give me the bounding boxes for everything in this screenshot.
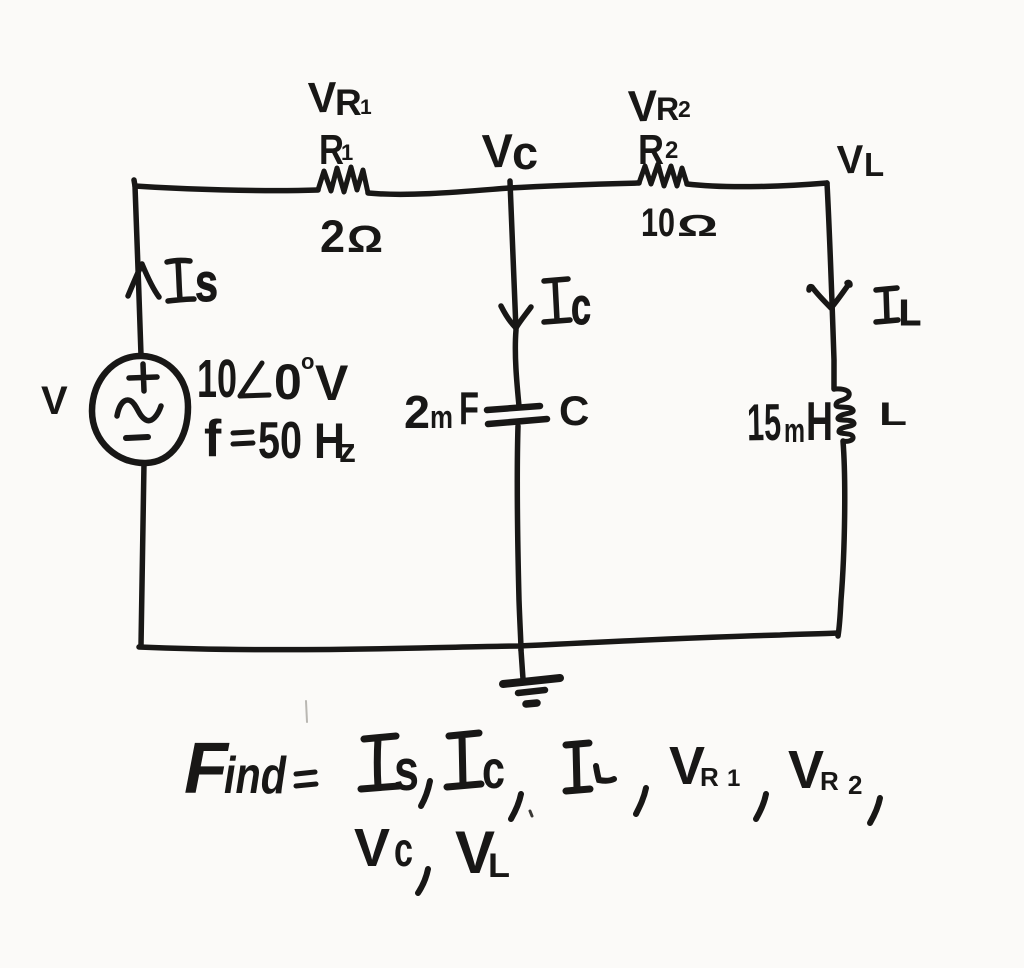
voltage source minus sign bbox=[126, 437, 148, 438]
ground bar 2 bbox=[518, 690, 545, 693]
voltage source sine symbol bbox=[117, 400, 161, 421]
svg-text:L: L bbox=[879, 396, 907, 432]
svg-text:Ω: Ω bbox=[347, 219, 383, 261]
svg-text:0: 0 bbox=[274, 354, 302, 410]
comma bbox=[418, 869, 428, 893]
capacitor C plates bbox=[487, 406, 547, 424]
svg-text:L: L bbox=[864, 146, 884, 183]
wire R2 to top-right corner bbox=[687, 183, 827, 187]
svg-text:C: C bbox=[559, 387, 589, 434]
svg-text:1: 1 bbox=[727, 765, 740, 792]
ground bar 3 bbox=[526, 703, 537, 704]
label 15mH bbox=[747, 390, 833, 452]
wire top-left horizontal bbox=[135, 186, 318, 191]
svg-text:o: o bbox=[301, 349, 314, 374]
svg-text:V: V bbox=[481, 124, 515, 178]
wire right vertical lower bbox=[838, 441, 845, 636]
svg-text:V: V bbox=[788, 740, 824, 800]
label VR1 bbox=[307, 74, 372, 123]
svg-text:R: R bbox=[820, 766, 839, 796]
inductor L coil bbox=[834, 389, 854, 442]
svg-text:1: 1 bbox=[341, 140, 353, 165]
find list Vc bbox=[354, 818, 428, 893]
source frequency label f = 50Hz bbox=[204, 410, 356, 470]
label R2 bbox=[638, 126, 678, 173]
label 10 ohm bbox=[641, 201, 718, 245]
wire capacitor branch upper bbox=[510, 181, 519, 406]
resistor R1 bbox=[318, 167, 368, 193]
svg-text:15: 15 bbox=[747, 394, 782, 453]
current arrow Is bbox=[128, 264, 159, 297]
ink speck bbox=[530, 811, 532, 816]
Find = text bbox=[184, 729, 316, 809]
svg-text:m: m bbox=[784, 412, 805, 450]
svg-text:V: V bbox=[354, 818, 390, 878]
wire ground stub bbox=[521, 650, 523, 679]
label 2 ohm bbox=[320, 211, 383, 262]
svg-text:V: V bbox=[41, 379, 68, 423]
current arrow IL bbox=[809, 282, 850, 308]
svg-text:L: L bbox=[899, 292, 921, 333]
comma bbox=[511, 794, 521, 819]
wire right vertical upper bbox=[827, 183, 834, 389]
wire bottom horizontal bbox=[139, 633, 838, 650]
svg-text:2: 2 bbox=[404, 386, 430, 438]
svg-text:f: f bbox=[204, 410, 222, 468]
label Is bbox=[167, 253, 218, 313]
svg-text:V: V bbox=[307, 74, 338, 123]
svg-text:V: V bbox=[315, 355, 349, 411]
svg-text:R: R bbox=[335, 82, 362, 123]
svg-text:ind: ind bbox=[224, 747, 287, 805]
find list Is bbox=[361, 736, 430, 806]
comma bbox=[756, 794, 766, 819]
voltage source V circle bbox=[92, 356, 188, 463]
ground bar 1 bbox=[503, 678, 560, 684]
svg-text:2: 2 bbox=[320, 211, 345, 262]
node VL label bbox=[836, 138, 884, 183]
wire left vertical lower bbox=[141, 463, 144, 646]
svg-text:z: z bbox=[339, 432, 356, 470]
svg-text:V: V bbox=[627, 82, 659, 132]
svg-text:L: L bbox=[488, 847, 510, 885]
wire R1 to node Vc bbox=[368, 188, 509, 194]
svg-text:c: c bbox=[571, 278, 591, 336]
svg-text:10: 10 bbox=[197, 349, 237, 409]
svg-text:Ω: Ω bbox=[677, 208, 718, 243]
svg-text:2: 2 bbox=[665, 137, 678, 164]
svg-text:s: s bbox=[195, 253, 218, 313]
label R1 bbox=[319, 126, 353, 173]
wire capacitor branch lower bbox=[517, 426, 521, 650]
svg-text:R: R bbox=[638, 126, 664, 173]
svg-text:m: m bbox=[430, 399, 453, 435]
svg-text:R: R bbox=[656, 91, 679, 127]
find list VR1 bbox=[669, 736, 766, 819]
node Vc label bbox=[481, 124, 538, 179]
wire node Vc to R2 bbox=[509, 183, 639, 188]
find list IL bbox=[566, 743, 646, 814]
svg-text:c: c bbox=[482, 740, 505, 800]
svg-text:2: 2 bbox=[848, 770, 862, 800]
find list Ic bbox=[447, 733, 521, 819]
comma bbox=[870, 798, 880, 823]
label 2mF bbox=[404, 382, 479, 438]
svg-text:2: 2 bbox=[678, 96, 691, 122]
find list VR2 bbox=[788, 740, 880, 823]
voltage source plus sign bbox=[129, 364, 157, 391]
svg-text:c: c bbox=[512, 126, 538, 179]
svg-text:1: 1 bbox=[360, 96, 372, 119]
comma bbox=[636, 788, 646, 814]
svg-text:50: 50 bbox=[258, 412, 302, 470]
label VR2 bbox=[627, 82, 691, 132]
svg-text:H: H bbox=[806, 390, 833, 452]
faint pencil tick bbox=[306, 701, 307, 722]
svg-text:10: 10 bbox=[641, 201, 675, 245]
label Ic bbox=[544, 278, 591, 336]
svg-text:R: R bbox=[700, 762, 719, 792]
svg-text:V: V bbox=[836, 138, 865, 183]
current arrow Ic bbox=[501, 306, 531, 328]
svg-text:c: c bbox=[394, 824, 413, 877]
wire left vertical upper bbox=[134, 180, 141, 355]
svg-text:s: s bbox=[394, 738, 419, 803]
svg-text:F: F bbox=[459, 382, 479, 434]
comma bbox=[421, 781, 430, 806]
resistor R2 bbox=[639, 164, 687, 186]
source value label 10 angle 0 V bbox=[197, 349, 349, 411]
find list VL bbox=[455, 819, 510, 886]
label IL bbox=[876, 288, 921, 333]
